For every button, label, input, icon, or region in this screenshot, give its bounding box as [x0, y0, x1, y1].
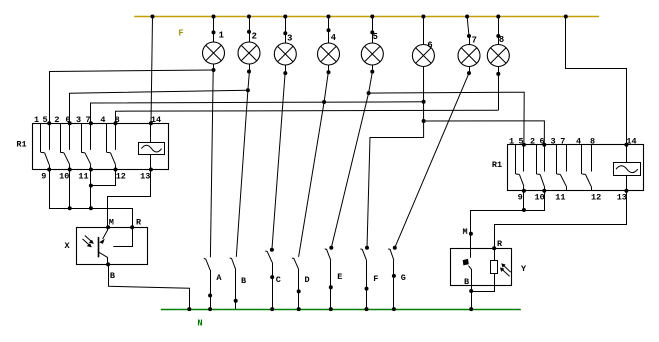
svg-text:6: 6	[539, 136, 544, 146]
switch D	[292, 258, 310, 311]
optocoupler X body	[77, 228, 148, 265]
svg-text:R1: R1	[16, 139, 26, 149]
wire lamp 8 stem	[498, 74, 500, 110]
svg-text:R1: R1	[492, 160, 502, 170]
relay R1 right contact 4	[582, 145, 592, 191]
optocoupler X phototransistor	[98, 227, 107, 264]
svg-text:B: B	[110, 271, 115, 281]
svg-text:2: 2	[530, 136, 535, 146]
relay R1 right top pin dots	[522, 143, 629, 147]
lamp 3	[274, 15, 296, 76]
relay R1 right coil	[614, 145, 641, 191]
svg-text:B: B	[464, 277, 469, 287]
relay R1 right contact 3	[557, 145, 567, 191]
svg-text:11: 11	[555, 193, 565, 203]
wire right relay pin 9 and pin 10 to Y component M terminal	[471, 191, 545, 248]
net F phase bus	[134, 16, 599, 18]
svg-text:14: 14	[151, 115, 161, 125]
lamp 8	[487, 15, 509, 76]
svg-text:8: 8	[499, 35, 504, 45]
svg-text:7: 7	[560, 136, 565, 146]
sensor Y internal resistor	[491, 248, 498, 273]
wire right relay pin 13 to Y component R terminal	[495, 191, 627, 249]
switch B	[230, 258, 246, 309]
svg-text:5: 5	[373, 32, 378, 42]
wire left relay pin 11 stub down	[90, 170, 92, 209]
wire X component B terminal to N bus	[109, 264, 190, 309]
relay R1 left bottom pin numbers	[41, 171, 150, 181]
node junction dot W3 with lamp 4 wire	[322, 100, 326, 104]
switch C	[265, 248, 281, 311]
svg-text:8: 8	[590, 136, 595, 146]
svg-text:3: 3	[287, 33, 292, 43]
node junction dot on F bus at x=152.5	[151, 15, 155, 19]
svg-text:R: R	[136, 218, 142, 228]
node junction dot lamp2 wire with W2	[246, 88, 250, 92]
node Y component M terminal dot	[469, 232, 473, 236]
lamp 1	[203, 15, 225, 73]
svg-text:9: 9	[41, 171, 46, 181]
lamp 5	[361, 15, 383, 74]
sensor Y light arrows	[500, 263, 511, 276]
svg-text:6: 6	[427, 40, 432, 50]
node junction dot on F bus at x=565.8	[564, 15, 568, 19]
wire lamp 4 to switch D	[299, 72, 329, 257]
svg-text:1: 1	[34, 115, 39, 125]
relay R1 left top pin numbers	[34, 115, 161, 125]
svg-text:F: F	[178, 29, 183, 39]
svg-text:D: D	[304, 275, 309, 285]
lamp 4	[318, 15, 340, 75]
node junction dot Y B terminal	[469, 289, 473, 293]
svg-text:4: 4	[100, 115, 105, 125]
relay R1 right contact 2	[536, 145, 544, 191]
wire left relay pin 8 to lamp 8 stem	[116, 110, 499, 123]
wire lamp 2 to switch B	[236, 72, 249, 257]
wire left relay pin 7 to lamp 6 stem	[91, 102, 424, 123]
wire left relay pin 10 stub down	[69, 170, 71, 209]
optocoupler X internal base lead from R	[113, 227, 132, 246]
svg-text:3: 3	[76, 115, 81, 125]
switch G	[388, 246, 406, 311]
lamp 7	[458, 15, 480, 76]
wire lamp 5 node to right relay pin 5	[369, 92, 525, 145]
svg-text:C: C	[276, 275, 281, 285]
svg-text:G: G	[401, 273, 406, 283]
node junction dot W6 at lamp 6 stem	[422, 119, 426, 123]
wire lamp 6 stem node to right relay pin 6	[424, 121, 545, 145]
relay R1 left contact 4	[107, 123, 116, 169]
svg-text:M: M	[109, 218, 114, 228]
svg-text:10: 10	[59, 171, 69, 181]
node Y pin R dot	[492, 246, 496, 250]
relay R1 right top pin numbers	[509, 136, 637, 146]
svg-text:7: 7	[472, 35, 477, 45]
svg-text:N: N	[197, 318, 202, 328]
sensor Y body	[451, 249, 512, 286]
wire left relay pin 9 to X component R terminal	[50, 170, 133, 228]
svg-text:F: F	[373, 274, 378, 284]
node junction dot Y B wire on N bus	[469, 307, 473, 311]
svg-text:13: 13	[617, 193, 627, 203]
wire lamp 6 stem down and over to switch F	[367, 67, 424, 248]
svg-text:A: A	[216, 273, 222, 283]
relay R1 right body	[508, 145, 644, 191]
svg-text:2: 2	[252, 31, 257, 41]
svg-text:2: 2	[54, 115, 59, 125]
relay R1 left coil	[139, 123, 165, 169]
wire lamp 7 to switch G	[395, 73, 469, 248]
svg-text:5: 5	[43, 115, 48, 125]
relay R1 left contact 3	[81, 123, 91, 169]
relay R1 left contact 2	[60, 123, 69, 169]
svg-text:X: X	[64, 241, 70, 251]
relay R1 right bottom pin numbers	[518, 193, 627, 203]
svg-text:5: 5	[518, 136, 523, 146]
node junction dot pin9 wire	[522, 208, 526, 212]
switch A	[204, 259, 223, 312]
relay R1 left body	[33, 124, 169, 170]
node junction dot pin11 on bus	[89, 206, 93, 210]
svg-text:1: 1	[509, 136, 514, 146]
svg-text:9: 9	[518, 193, 523, 203]
node junction dot pin10 on bus	[68, 206, 72, 210]
wire left relay pin 12 jog to pin 11 line	[91, 170, 116, 186]
svg-text:12: 12	[116, 171, 126, 181]
node junction dot W3 at lamp 6 stem	[422, 100, 426, 104]
svg-text:13: 13	[140, 171, 150, 181]
wire lamp 3 to switch C	[272, 73, 285, 250]
relay R1 left bottom pin dots	[47, 168, 153, 172]
svg-text:11: 11	[78, 171, 88, 181]
sensor Y photodiode element	[463, 248, 472, 286]
node X pin M dot	[106, 225, 110, 229]
wire Y internal resistor bottom lead loop	[471, 273, 494, 291]
switch F	[360, 246, 378, 311]
wire Y component B terminal to N bus	[471, 286, 473, 309]
relay R1 left top pin dots	[47, 121, 153, 125]
svg-text:8: 8	[115, 115, 120, 125]
optocoupler X light arrows	[83, 236, 94, 248]
node junction dot pin12 jog on pin11 line	[89, 184, 93, 188]
svg-text:10: 10	[534, 193, 544, 203]
wire left relay pin 6 to lamp 2 wire node	[70, 90, 248, 123]
relay R1 right contact 1	[516, 145, 524, 191]
svg-text:Y: Y	[521, 264, 527, 274]
relay R1 left contact 1	[41, 123, 50, 169]
node X pin R dot	[130, 225, 134, 229]
svg-text:4: 4	[331, 33, 337, 43]
wire left relay pin 13 to X component M terminal	[108, 170, 151, 228]
node junction dot B wire on N bus	[187, 307, 191, 311]
svg-text:R: R	[497, 239, 503, 249]
wire F bus to right relay pin 14	[566, 17, 627, 145]
svg-text:14: 14	[626, 136, 636, 146]
svg-text:7: 7	[85, 115, 90, 125]
svg-text:1: 1	[219, 30, 224, 40]
node junction dot lamp5 wire with W5	[367, 91, 371, 95]
svg-text:12: 12	[591, 193, 601, 203]
switch E	[325, 246, 343, 311]
relay R1 right bottom pin dots	[522, 189, 629, 193]
svg-text:E: E	[337, 272, 342, 282]
wire left relay pin 5 to lamp 1 bottom node	[50, 70, 214, 123]
lamp 6	[412, 15, 434, 67]
net N neutral bus	[161, 309, 521, 311]
svg-text:B: B	[241, 276, 246, 286]
svg-text:4: 4	[576, 136, 581, 146]
svg-text:6: 6	[65, 115, 70, 125]
wire lamp 5 to switch E	[331, 72, 372, 248]
svg-text:3: 3	[551, 136, 556, 146]
svg-text:M: M	[462, 227, 467, 237]
node X pin B dot	[106, 262, 110, 266]
lamp 2	[238, 15, 260, 74]
wire lamp 1 to switch A	[210, 70, 213, 257]
wire F bus to left relay pin 14	[151, 17, 153, 124]
